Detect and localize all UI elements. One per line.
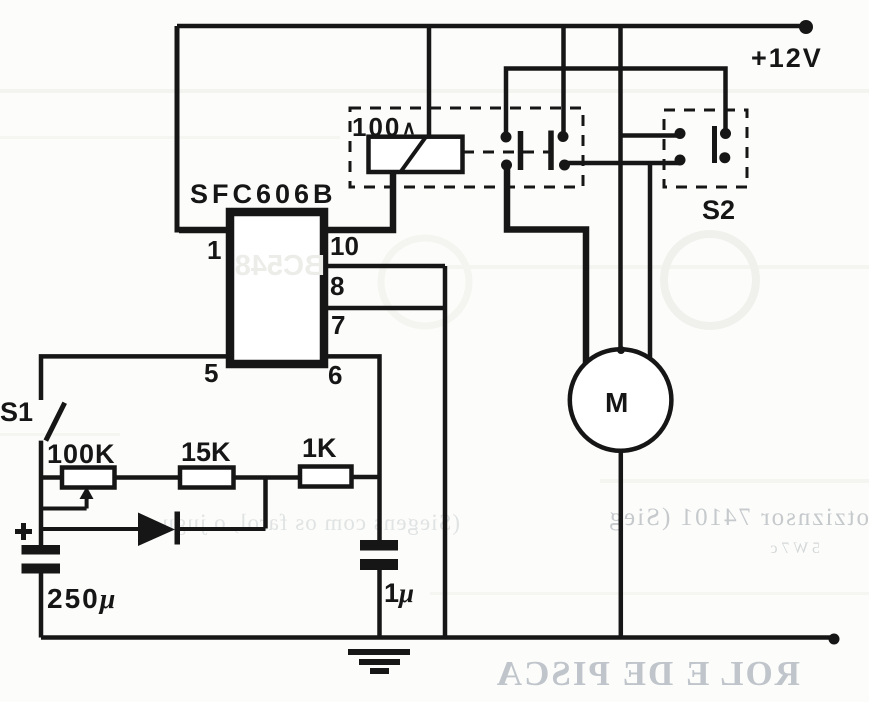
capacitor C2 1u top plate (360, 540, 398, 551)
relay contact K1a fixed bar (518, 131, 524, 170)
wire: bottom ground rail (41, 635, 836, 640)
wire: 15K to 1K (234, 475, 301, 480)
svg-text:5 W 7 c: 5 W 7 c (770, 540, 820, 557)
switch S1 blade (46, 403, 65, 441)
relay contact K1a bottom dot (501, 160, 512, 171)
svg-text:S2: S2 (702, 195, 735, 225)
bleed-through text small (mirrored) (770, 540, 820, 557)
wire: +12V top rail (177, 24, 808, 29)
svg-text:7: 7 (331, 310, 345, 340)
wire: +12V rail down to motor top (618, 26, 623, 350)
node: bottom right terminal dot (829, 634, 840, 645)
bleed-through text left part (mirrored) (161, 510, 460, 535)
wire: pin 6 right and down (326, 356, 380, 540)
wire: pot to 15K (115, 475, 181, 480)
wire: motor-top vertical to S2 top-left (621, 133, 681, 138)
svg-text:SFC606B: SFC606B (190, 179, 337, 209)
bleed-through faint circle right of IC (381, 238, 469, 326)
wire: left rail to diode anode (41, 527, 139, 531)
wire: contact K1a bottom down and right to motor left (507, 165, 586, 367)
ground symbol (348, 649, 410, 655)
svg-text:BC548: BC548 (235, 250, 325, 282)
relay coil diagonal (401, 137, 427, 172)
relay contact K1b top dot (558, 131, 569, 142)
wire: top rail to IC pin 1 (177, 26, 228, 230)
capacitor C1 250u top plate (22, 545, 61, 555)
svg-text:100: 100 (352, 112, 401, 142)
wire: junction down to motor right (648, 163, 653, 365)
relay RL1 coil (369, 137, 463, 172)
svg-text:1μ: 1μ (384, 578, 414, 608)
node: +12V terminal dot (799, 20, 813, 34)
potentiometer wiper arrow (85, 496, 89, 509)
S2 right bar (712, 126, 717, 163)
motor junction dot at top (617, 346, 625, 354)
wire: 1K to pin-6 vertical (352, 475, 380, 480)
svg-text:1K: 1K (302, 433, 337, 463)
svg-text:otziznsor 74101 (Sieg: otziznsor 74101 (Sieg (608, 504, 869, 531)
wire: pin 10 to relay coil (326, 174, 393, 230)
S2 left top dot (675, 128, 686, 139)
bleed-through faint circle near S2 (664, 234, 756, 326)
wire: junction down to diode cathode (263, 478, 268, 529)
faint scan bands (decorative) (0, 89, 869, 93)
wire: contact K1b bottom to S2 bottom-left (565, 161, 681, 166)
svg-text:5: 5 (204, 358, 218, 388)
svg-text:250μ: 250μ (47, 583, 117, 615)
S2 right top dot (720, 128, 731, 139)
relay mechanical linkage dashed line (463, 151, 549, 154)
bleed-through big text bottom (mirrored) (495, 654, 800, 693)
relay contact K1b bottom dot (559, 160, 570, 171)
wire: contact K1a top up over to S2 top-right (506, 69, 726, 138)
S2 right bottom dot (719, 152, 730, 163)
svg-text:6: 6 (328, 360, 342, 390)
motor M1 circle (570, 349, 672, 451)
potentiometer R1 100K body (62, 468, 115, 488)
wire: pin 8 to right vertical (326, 264, 445, 269)
wire: top rail down to relay coil top (427, 26, 432, 137)
capacitor C2 1u bottom plate (360, 559, 398, 570)
svg-text:8: 8 (330, 271, 344, 301)
svg-text:S1: S1 (0, 397, 33, 427)
svg-text:M: M (605, 387, 628, 418)
switch S2 dashed enclosure (664, 110, 747, 187)
wire: wiper to left rail (41, 507, 87, 511)
relay contact K1b fixed bar (548, 131, 554, 171)
capacitor C1 250u bottom plate (22, 564, 61, 574)
wire: pin 7 to right vertical (326, 306, 445, 311)
S2 left bottom dot (675, 155, 686, 166)
bleed-through text line right (mirrored) (608, 504, 869, 531)
relay dashed enclosure (350, 108, 583, 187)
svg-text:15K: 15K (181, 437, 231, 467)
svg-text:(Siegens com os farol, o jugu: (Siegens com os farol, o jugu (161, 510, 460, 535)
wire: cap C2 to bottom rail (377, 570, 382, 637)
relay contact K1a top dot (501, 132, 512, 143)
resistor R3 1K body (300, 467, 352, 487)
wire: motor bottom to ground rail (619, 450, 624, 637)
wire: left rail to potentiometer (41, 475, 62, 480)
bleed-through text inside IC (mirrored) (235, 250, 325, 282)
svg-text:1: 1 (207, 235, 221, 265)
resistor R2 15K body (180, 468, 234, 488)
wire: cap C1 to bottom rail (39, 574, 44, 638)
capacitor C1 250u plus sign (15, 523, 32, 540)
op-amp / IC U1 SFC606B body (230, 212, 324, 364)
svg-text:10: 10 (330, 231, 359, 261)
wire: diode cathode to junction (180, 527, 266, 531)
wire: pins 8/7 vertical down to bottom rail (443, 266, 448, 637)
svg-text:ROL E DE PISCA: ROL E DE PISCA (495, 654, 800, 693)
wire: pin 5 left to S1 (41, 356, 226, 400)
svg-text:∧: ∧ (402, 118, 416, 139)
diode D1 (138, 513, 175, 547)
svg-text:100K: 100K (47, 439, 116, 469)
svg-text:+12V: +12V (751, 43, 823, 73)
wire: contact K1b top to +12V rail (561, 26, 566, 137)
wire: S1 bottom down the left rail (39, 441, 44, 545)
